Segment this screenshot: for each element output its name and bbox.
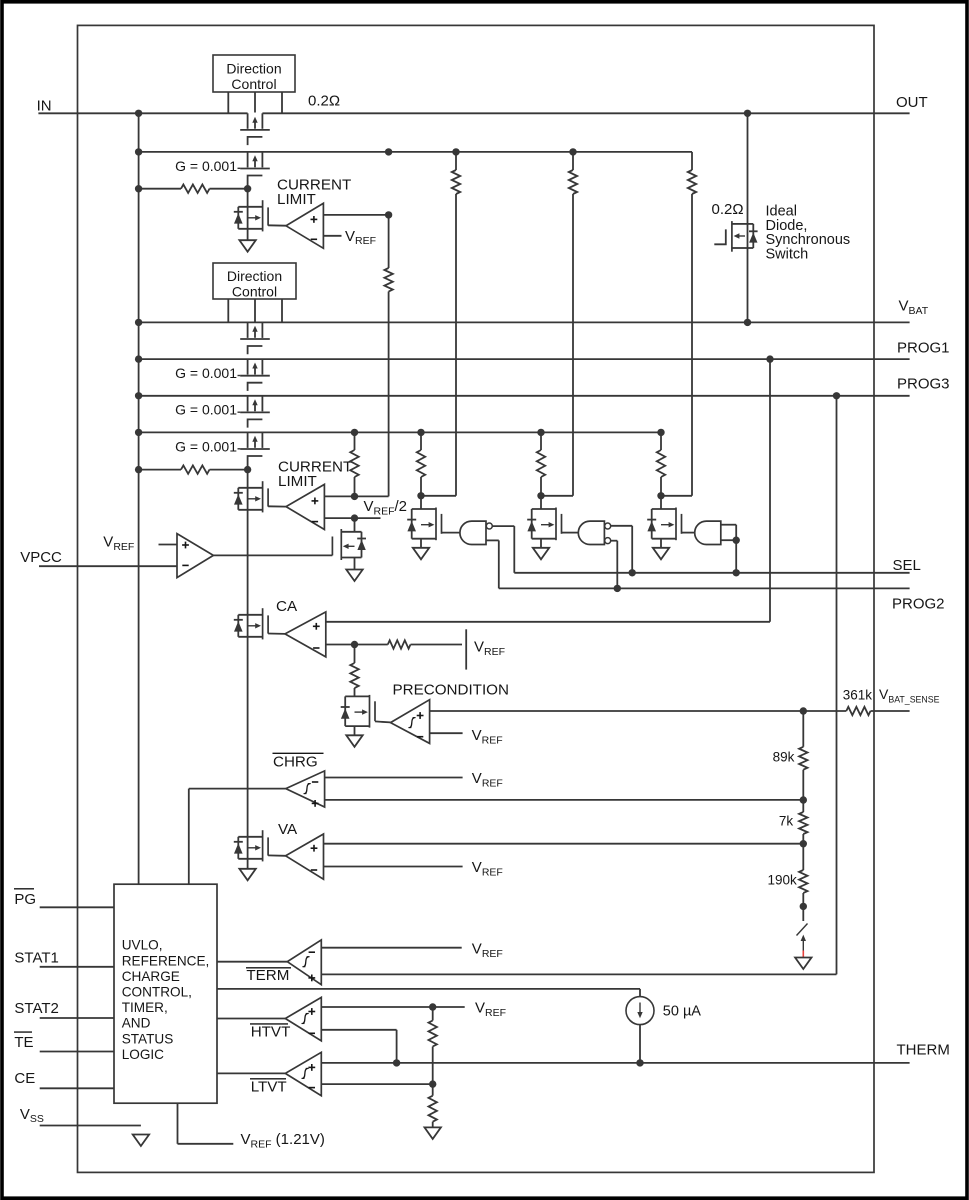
wire VPCC input — [39, 565, 177, 567]
op-amp current limit 1 — [286, 203, 323, 248]
op-amp CA — [285, 612, 326, 657]
node group x541 — [537, 492, 544, 499]
ground divider — [795, 958, 811, 970]
wire CHRG output — [189, 789, 286, 885]
pin label CE — [14, 1070, 35, 1087]
label VREF 1.21V — [241, 1131, 325, 1150]
wire rail2 horizontal — [139, 151, 692, 153]
wire group drain x541 — [540, 496, 542, 509]
svg-text:TERM: TERM — [246, 967, 289, 984]
wire M1 gate lead — [268, 224, 286, 226]
transistor Q6 pass FET PROG3 — [240, 396, 270, 428]
wire M6 source — [247, 859, 249, 869]
svg-text:50 µA: 50 µA — [663, 1003, 702, 1019]
wire IN rail — [38, 112, 247, 114]
node rail2 x389 — [385, 148, 392, 155]
wire SEL line — [514, 572, 909, 574]
switch tick divider — [797, 924, 808, 936]
wire sense FET1 drain — [247, 189, 249, 241]
svg-text:190k: 190k — [768, 873, 798, 888]
label G=0.001 #4 — [175, 438, 240, 454]
op-amp TERM — [287, 940, 321, 985]
svg-text:0.2Ω: 0.2Ω — [712, 201, 744, 218]
wire CL1 plus input — [323, 214, 388, 216]
op-amp VPCC comparator — [177, 534, 213, 578]
pin label PG — [14, 889, 36, 908]
wire red segment — [802, 951, 804, 958]
wire CL2 plus input — [324, 495, 388, 497]
transistor M3 VPCC pulldown — [332, 529, 366, 570]
ground VSS — [133, 1135, 149, 1147]
logic gate at x604 — [578, 521, 610, 544]
svg-text:G = 0.001: G = 0.001 — [175, 365, 237, 381]
svg-text:CONTROL,: CONTROL, — [122, 985, 192, 1000]
resistor thermistor lower — [429, 1096, 437, 1122]
node gate row2 right — [244, 466, 251, 473]
label 0.2ohm top — [308, 93, 340, 110]
wire CL2 minus input — [324, 517, 380, 519]
wire ideal diode vertical — [747, 113, 749, 322]
op-amp VA — [286, 834, 324, 879]
transistor Q5 pass FET PROG1 — [240, 359, 270, 391]
transistor M6 VA sense — [234, 830, 268, 861]
resistor CA vref — [388, 640, 411, 648]
wire IN-OUT rail right of Q1 — [262, 112, 909, 114]
wire group drain x421 — [420, 496, 422, 509]
wire PROG1 feedback vertical — [769, 359, 771, 622]
label VREF at VPCC — [103, 534, 134, 553]
logic gate at x486 — [460, 521, 492, 544]
svg-text:STATUS: STATUS — [122, 1031, 174, 1046]
wire thermistor divider leads — [432, 1007, 434, 1127]
wire box2 lead left — [227, 299, 229, 322]
node rail2 left — [135, 148, 142, 155]
node rail432 left — [135, 429, 142, 436]
node CL2 minus x354 — [351, 514, 358, 521]
op-amp HTVT — [285, 997, 321, 1040]
svg-text:Control: Control — [232, 284, 277, 300]
svg-text:STAT1: STAT1 — [14, 949, 58, 966]
transistor Q1 input pass FET — [240, 113, 270, 145]
svg-text:Direction: Direction — [227, 268, 282, 284]
ground M3 — [346, 570, 362, 582]
wire VREF 1.21V lead — [178, 1103, 234, 1144]
wire divider 89k leads — [802, 711, 804, 800]
resistor 190k — [799, 870, 807, 893]
resistor on x456 — [452, 170, 460, 194]
svg-text:G = 0.001: G = 0.001 — [175, 158, 237, 174]
UVLO logic block U1 — [114, 884, 217, 1103]
wire box2 lead middle — [254, 299, 256, 322]
svg-text:CA: CA — [276, 598, 298, 615]
pin label OUT — [896, 94, 928, 111]
resistor 361k — [846, 707, 870, 715]
resistor on x573 — [569, 170, 577, 194]
node PROG3 feedback — [833, 392, 840, 399]
wire TERM minus input — [321, 947, 461, 949]
pin label TE — [14, 1032, 34, 1051]
node SEL g3 — [733, 569, 740, 576]
wire gate resistor row1 — [139, 188, 248, 190]
label TERM — [246, 967, 291, 984]
wire rail-432 — [139, 431, 661, 433]
resistor 7k — [799, 812, 807, 834]
svg-text:REFERENCE,: REFERENCE, — [122, 953, 210, 968]
transistor M4 CA sense — [234, 608, 268, 639]
wire box1 lead left — [227, 92, 229, 113]
resistor 89k — [799, 747, 807, 770]
wire 361k leads — [803, 710, 909, 712]
label G=0.001 #3 — [175, 402, 240, 418]
label VREF at CHRG — [472, 770, 503, 789]
wire M2 gate lead — [268, 505, 286, 507]
wire vert x389 — [388, 215, 390, 497]
transistor group FET x421 — [407, 508, 441, 541]
node rail2 x573 — [569, 148, 576, 155]
IC boundary frame — [78, 25, 875, 1172]
wire g1 bottom — [486, 540, 499, 588]
wire VSS — [40, 1125, 141, 1127]
label CURRENT LIMIT 2 — [278, 459, 352, 490]
svg-text:G = 0.001: G = 0.001 — [175, 438, 237, 454]
ground M5 — [346, 735, 362, 747]
transistor M2 current sense 2 — [234, 481, 268, 512]
direction control box 2 — [213, 263, 296, 300]
svg-text:HTVT: HTVT — [251, 1024, 291, 1041]
wire STAT1 — [40, 966, 114, 968]
op-amp precondition — [391, 700, 430, 744]
ground group x421 — [413, 548, 429, 560]
node group x421 — [417, 492, 424, 499]
pin label VPCC — [20, 549, 62, 566]
svg-text:IN: IN — [37, 97, 52, 114]
wire HTVT output — [217, 1018, 286, 1020]
svg-text:THERM: THERM — [897, 1042, 950, 1059]
node SEL g2 — [629, 569, 636, 576]
label ideal diode text — [766, 204, 851, 263]
wire CHRG plus input — [325, 799, 804, 801]
wire group pullup leads x421 — [420, 432, 422, 495]
node gate row2 left — [135, 466, 142, 473]
svg-text:PROG1: PROG1 — [897, 339, 950, 356]
wire group gate lead x421 — [442, 532, 460, 534]
pin label THERM — [897, 1042, 950, 1059]
node CL2 plus x354 — [351, 493, 358, 500]
label G=0.001 #2 — [175, 365, 240, 381]
op-amp current limit 2 — [286, 484, 324, 529]
wire HTVT plus input VREF — [321, 1006, 464, 1008]
resistor gate row2 — [181, 465, 210, 473]
node CL1 plus junction — [385, 211, 392, 218]
label 361k — [843, 687, 873, 702]
svg-text:VA: VA — [278, 821, 298, 838]
ground M6 — [239, 869, 255, 881]
node rail432 x421 — [417, 429, 424, 436]
wire group pullup leads x661 — [660, 432, 662, 495]
wire box1 lead right — [281, 92, 283, 113]
pin label IN — [37, 97, 52, 114]
wire M4 gate lead — [268, 633, 285, 635]
direction control box 1 — [213, 55, 295, 92]
pin label PROG3 — [897, 376, 950, 393]
node gate row1 left — [135, 185, 142, 192]
wire divider 190k leads — [802, 844, 804, 907]
wire VA plus input — [324, 843, 804, 845]
wire sense chain vertical — [247, 470, 249, 859]
wire VA minus input — [324, 866, 463, 868]
label PRECONDITION — [393, 682, 509, 699]
wire box2 lead right — [281, 299, 283, 322]
resistor group pullup x661 — [657, 450, 665, 477]
wire PROG3 rail — [139, 395, 910, 397]
bar VREF terminal — [465, 629, 467, 669]
pin label STAT1 — [14, 949, 58, 966]
label CA — [276, 598, 298, 615]
wire VBAT rail — [139, 321, 910, 323]
wire vert x692 — [661, 152, 692, 496]
resistor thermistor upper — [429, 1021, 437, 1047]
arrow divider current — [801, 935, 806, 951]
svg-text:Control: Control — [231, 76, 276, 92]
node LTVT divider — [429, 1080, 436, 1087]
pin label PROG1 — [897, 339, 950, 356]
wire VPCC output — [213, 554, 332, 556]
node rail2 x456 — [452, 148, 459, 155]
op-amp CHRG — [286, 771, 325, 807]
wire divider 7k leads — [802, 800, 804, 844]
wire THERM line — [321, 1062, 909, 1064]
label VA — [278, 821, 298, 838]
svg-text:89k: 89k — [773, 750, 795, 765]
svg-text:LOGIC: LOGIC — [122, 1047, 164, 1062]
wire g3 right connections — [721, 525, 736, 573]
pin label VBAT — [899, 298, 929, 317]
node rail432 x354 — [351, 429, 358, 436]
svg-text:STAT2: STAT2 — [14, 1000, 58, 1017]
svg-text:361k: 361k — [843, 687, 873, 702]
label VREF at precond — [472, 727, 503, 746]
svg-text:CE: CE — [14, 1070, 35, 1087]
label VREF at HTVT — [475, 1000, 506, 1019]
transistor group FET x661 — [647, 508, 681, 541]
resistor precond — [350, 663, 358, 688]
transistor Q7 pass FET — [240, 432, 270, 469]
transistor Q4 pass FET VBAT — [240, 322, 270, 354]
svg-text:SEL: SEL — [893, 557, 921, 574]
wire group pullup leads x541 — [540, 432, 542, 495]
svg-text:CHARGE: CHARGE — [122, 969, 180, 984]
wire CE — [40, 1087, 114, 1089]
transistor group FET x541 — [527, 508, 561, 541]
svg-text:7k: 7k — [779, 814, 794, 829]
wire CHRG minus input — [325, 777, 463, 779]
wire x354 res leads — [354, 432, 356, 496]
wire g2 bottom — [610, 541, 617, 589]
svg-text:LIMIT: LIMIT — [278, 473, 317, 490]
pin label SEL — [893, 557, 921, 574]
wire group source x421 — [420, 539, 422, 548]
node OUT rail / ideal diode junction — [744, 110, 751, 117]
label 0.2ohm ideal diode — [712, 201, 744, 218]
wire block to current source — [217, 989, 640, 997]
wire STAT2 — [40, 1017, 114, 1019]
wire TE — [40, 1051, 114, 1053]
wire precond drain upper — [354, 645, 356, 664]
wire group drain x661 — [660, 496, 662, 509]
label VREF at TERM — [472, 941, 503, 960]
wire LTVT minus input — [321, 1083, 432, 1085]
pin label VBAT_SENSE — [879, 686, 940, 704]
resistor x354 upper — [350, 450, 358, 477]
label CURRENT LIMIT 1 — [277, 177, 351, 208]
wire box1 lead middle — [254, 92, 256, 113]
transistor M1 current sense — [234, 200, 268, 231]
wire group source x541 — [540, 539, 542, 548]
node PROG2 g2 — [614, 585, 621, 592]
svg-text:AND: AND — [122, 1016, 151, 1031]
wire current source to THERM — [639, 1025, 641, 1063]
node PROG1 feedback — [766, 355, 773, 362]
svg-text:PRECONDITION: PRECONDITION — [393, 682, 509, 699]
wire vert x456 — [421, 152, 456, 496]
ground thermistor divider — [425, 1127, 441, 1139]
svg-text:G = 0.001: G = 0.001 — [175, 402, 237, 418]
node HTVT to THERM — [393, 1059, 400, 1066]
current source 50uA — [626, 997, 654, 1025]
node divider mid1 — [800, 796, 807, 803]
label VREF/2 — [364, 498, 408, 517]
svg-text:0.2Ω: 0.2Ω — [308, 93, 340, 110]
node g3 input join — [733, 537, 740, 544]
wire CA minus input — [326, 644, 388, 646]
wire CL1 minus input — [323, 235, 341, 237]
label 89k — [773, 750, 795, 765]
node rail432 x661 — [657, 429, 664, 436]
node PROG3 left — [135, 392, 142, 399]
wire precond minus input — [430, 732, 463, 734]
label CHRG — [273, 753, 324, 770]
wire FET7 drain — [354, 518, 356, 532]
wire VPCC plus stub — [159, 544, 178, 546]
label VREF at CL1 — [345, 228, 376, 247]
svg-text:LTVT: LTVT — [251, 1078, 287, 1095]
svg-text:CHRG: CHRG — [273, 753, 318, 770]
logic gate at x720 — [695, 521, 721, 544]
wire CA vref lead — [411, 644, 463, 646]
node IN rail / left rail junction — [135, 110, 142, 117]
label 50uA — [663, 1003, 702, 1019]
node group x661 — [657, 492, 664, 499]
op-amp LTVT — [285, 1052, 321, 1095]
svg-text:Switch: Switch — [766, 246, 809, 262]
node HTVT divider top — [429, 1003, 436, 1010]
wire group source x661 — [660, 539, 662, 548]
pin label STAT2 — [14, 1000, 58, 1017]
wire left rail vertical — [138, 113, 140, 884]
svg-text:TIMER,: TIMER, — [122, 1000, 168, 1015]
label VREF at CA — [474, 639, 505, 658]
resistor on x692 — [688, 170, 696, 194]
resistor group pullup x421 — [417, 450, 425, 477]
svg-text:OUT: OUT — [896, 94, 928, 111]
wire PROG2 line — [499, 587, 910, 589]
node VBAT_SENSE divider top — [800, 707, 807, 714]
transistor Q2 pass FET — [240, 152, 270, 189]
wire TERM output — [217, 961, 288, 963]
ground sense FET1 — [239, 240, 255, 252]
svg-text:PG: PG — [14, 891, 36, 908]
wire PROG3 feedback vertical — [836, 396, 838, 975]
node divider mid2 — [800, 840, 807, 847]
svg-text:VPCC: VPCC — [20, 549, 62, 566]
label HTVT — [250, 1024, 290, 1041]
label VREF at VA — [472, 859, 503, 878]
wire M6 gate lead — [268, 854, 286, 856]
wire PG — [40, 906, 114, 908]
wire vert x573 — [541, 152, 573, 496]
wire divider tail — [802, 906, 804, 921]
svg-text:LIMIT: LIMIT — [277, 191, 316, 208]
wire g2 top output — [610, 526, 632, 573]
wire gate resistor row2 — [139, 469, 248, 471]
transistor Q3 ideal diode switch — [714, 221, 757, 252]
pin label VSS — [20, 1106, 44, 1125]
wire M5 gate lead — [375, 721, 391, 722]
node CA minus x354 — [351, 641, 358, 648]
wire M5 source — [354, 726, 356, 735]
resistor gate row1 — [181, 185, 210, 193]
svg-text:UVLO,: UVLO, — [122, 938, 163, 953]
label 190k — [768, 873, 798, 888]
label G=0.001 #1 — [175, 158, 240, 174]
ground group x541 — [533, 548, 549, 560]
transistor M5 precondition — [341, 695, 375, 728]
wire HTVT minus input — [321, 1030, 396, 1063]
node rail432 x541 — [537, 429, 544, 436]
svg-text:PROG2: PROG2 — [892, 595, 945, 612]
resistor on x389 — [384, 268, 392, 292]
wire TERM plus input — [321, 973, 836, 975]
wire precond drain lower — [354, 688, 356, 697]
node divider bottom — [800, 903, 807, 910]
wire CA plus input — [326, 621, 770, 623]
ground group x661 — [653, 548, 669, 560]
node VBAT ideal diode — [744, 319, 751, 326]
node THERM current source — [636, 1059, 643, 1066]
label 7k — [779, 814, 794, 829]
node gate row1 right — [244, 185, 251, 192]
node PROG1 left — [135, 355, 142, 362]
wire precond plus input VBAT_SENSE — [430, 710, 804, 712]
wire g1 top output — [492, 526, 514, 573]
wire group gate lead x541 — [562, 532, 578, 534]
label LTVT — [250, 1078, 287, 1095]
wire group gate lead x661 — [682, 532, 694, 534]
node VBAT left rail — [135, 319, 142, 326]
resistor group pullup x541 — [537, 450, 545, 477]
wire LTVT output — [217, 1072, 286, 1074]
svg-text:TE: TE — [14, 1034, 33, 1051]
pin label PROG2 — [892, 595, 945, 612]
svg-text:Direction: Direction — [226, 61, 281, 77]
wire PROG1 rail — [139, 358, 910, 360]
svg-text:PROG3: PROG3 — [897, 376, 950, 393]
